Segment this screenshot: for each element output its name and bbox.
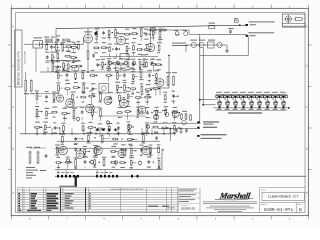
wire left col down (25, 92, 27, 134)
relay cell 4 resistor Rb4 (245, 95, 247, 97)
wire pad drop a (57, 170, 59, 175)
clean stage capacitor 20 (148, 160, 150, 162)
capacitor C32 (186, 129, 188, 131)
voltage regulator REG1 (208, 42, 215, 48)
input network resistor 3 (55, 44, 57, 45)
buffer stage resistor 13 (83, 84, 85, 85)
relay cell 1 resistor Ra1 (216, 95, 218, 97)
relay cell 3 label (232, 92, 238, 93)
relay cell 3 resistor Ra3 (232, 95, 234, 97)
relay cell 2 wire (227, 95, 229, 101)
row2 wire a (64, 106, 100, 108)
drawing info box (178, 188, 200, 213)
crunch stage resistor 34 (82, 125, 84, 126)
resistor R31 (181, 113, 183, 114)
wire pad drop c (96, 170, 98, 175)
relay cell 3 emitter wire (235, 105, 237, 108)
transistor TR20 FX (182, 120, 186, 124)
triode V5b (104, 97, 112, 105)
relay cell 4 resistor Ra4 (240, 95, 242, 97)
V1b stage resistor 28 (145, 61, 147, 62)
clean stage capacitor 2 (75, 148, 77, 150)
V1b stage capacitor 8 (145, 32, 147, 34)
crunch stage resistor 23 (116, 112, 117, 114)
clean stage capacitor 14 (84, 160, 86, 162)
wire tone row (100, 56, 148, 58)
node jog (168, 55, 170, 57)
relay cell 6 resistor Ra6 (256, 95, 258, 97)
clean stage resistor 5 (110, 150, 111, 152)
arrow rail2 (246, 35, 249, 37)
node array in1 (199, 99, 201, 101)
bl text (26, 167, 35, 168)
relay cell 4 diode Da4 (242, 95, 244, 98)
input network resistor 15 (63, 62, 65, 63)
wire pad drop d (104, 170, 106, 175)
relay cell 3 diode Da3 (234, 95, 236, 98)
clean stage resistor 1 (56, 146, 58, 147)
V1b stage resistor 15 (126, 45, 128, 46)
relay cell 5 diode Da5 (250, 95, 252, 98)
relay cell 7 label (264, 92, 270, 93)
triode V9a (142, 146, 151, 155)
node relay 9 (283, 107, 285, 109)
revision table entries (18, 193, 91, 211)
labels FX parts (153, 110, 159, 111)
buffer stage resistor 7 (116, 72, 118, 73)
node relay 6 (259, 107, 261, 109)
row2 bus drops (36, 128, 38, 134)
V1b stage capacitor 14 (115, 47, 117, 49)
relay cell 4 label (240, 92, 246, 93)
IC U1 box (99, 84, 109, 94)
supply rail2 wire (196, 33, 247, 35)
input network resistor 5 (66, 46, 67, 48)
clean stage resistor 17 (110, 161, 111, 163)
wire rail2 left drop (199, 34, 201, 36)
V1b stage resistor 12 (101, 47, 102, 49)
svg-text:E: E (306, 26, 308, 29)
wire FX mid (158, 128, 200, 130)
triode V1a (84, 34, 93, 43)
buffer stage capacitor 8 (123, 73, 125, 75)
V1b stage resistor 23 (112, 62, 113, 64)
resistor R20 (167, 76, 169, 77)
potentiometer VR13 (146, 125, 149, 128)
crunch stage capacitor 20 (81, 110, 83, 112)
relay in wire lower (203, 104, 215, 106)
vertical DRG.No. label box (15, 30, 22, 87)
row3 upper parts resistor 3 (87, 135, 89, 136)
input network capacitor 14 (57, 65, 59, 67)
input network resistor 18 (75, 65, 76, 67)
wire rail2 feeder (147, 29, 189, 31)
wire V2a anode (150, 28, 152, 44)
drawing sheet inner frame (16, 13, 305, 213)
title block (260, 188, 305, 213)
top margin zone ticks and numbers (11, 5, 308, 9)
wire reg drop right (226, 45, 228, 49)
input network resistor 17 (71, 65, 72, 67)
input network capacitor 8 (46, 55, 48, 57)
bright cap mark (95, 32, 98, 35)
relay cell 9 wire (283, 95, 285, 101)
thick power feed (75, 176, 77, 188)
resistor R22 (25, 80, 27, 81)
diode D6 (184, 32, 188, 36)
capacitor C50 rail2 (230, 30, 232, 32)
crunch stage resistor 25 (137, 109, 139, 110)
buffer stage resistor 3 (75, 73, 77, 74)
label FX return (203, 127, 217, 128)
input network resistor 9 (51, 54, 53, 55)
transistor TR9 relay driver (281, 101, 286, 106)
potentiometer VR22 (114, 161, 117, 164)
row3 right vert (161, 148, 163, 169)
buffer stage resistor 4 (82, 72, 84, 73)
wire V1a cathode (87, 43, 89, 50)
svg-text:DRG.No. 6100-61-0?s: DRG.No. 6100-61-0?s (16, 51, 20, 85)
crunch stage resistor 24 (124, 111, 125, 113)
input network resistor 11 (64, 55, 65, 57)
row3 upper parts resistor 7 (142, 134, 144, 135)
connector J2 pads (96, 175, 98, 178)
crunch stage resistor 16 (46, 110, 48, 111)
buffer stage resistor 10 (57, 84, 59, 85)
mid ground bus (20, 133, 176, 135)
V1b stage resistor 6 (131, 33, 132, 35)
svg-text:C: C (12, 106, 14, 109)
connector pad J4 (137, 175, 139, 178)
labels R22 R23 (24, 93, 29, 94)
transistor TR21 FX (165, 113, 169, 117)
FET switch area resistor 6 (153, 88, 154, 90)
relay array bottom bus (214, 107, 289, 109)
crunch stage resistor 15 (36, 108, 38, 109)
wire HT drop left (55, 29, 57, 45)
buffer stage resistor 5 (89, 74, 90, 76)
V1b stage resistor 25 (127, 62, 129, 63)
svg-text:D: D (306, 65, 308, 68)
V1b stage resistor 1 (96, 30, 98, 31)
triode V7a (59, 146, 68, 155)
crunch stage resistor 39 (128, 124, 130, 125)
switch box S1 (120, 54, 129, 59)
transistor TR5 relay driver (249, 101, 254, 106)
potentiometer VR23 (138, 161, 141, 164)
input network resistor 16 (67, 63, 69, 64)
relay cell 4 emitter wire (243, 105, 245, 108)
potentiometer VR1 bass (108, 61, 111, 64)
crunch stage resistor 27 (155, 109, 157, 110)
potentiometer VR12 (128, 125, 131, 128)
crunch stage resistor 30 (34, 126, 35, 128)
FX arrow 3 (197, 135, 199, 137)
buffer stage resistor 6 (105, 74, 106, 76)
revision right cells (148, 206, 158, 207)
buffer stage resistor 15 (116, 84, 118, 85)
relay cell 7 emitter wire (267, 105, 269, 108)
buffer stage resistor 1 (57, 71, 59, 72)
labels regulators (190, 40, 197, 41)
crunch stage resistor 18 (61, 112, 62, 114)
wire gnd drop 64 (63, 67, 65, 73)
potentiometer VR2 middle (116, 61, 119, 64)
FET switch area capacitor 2 (148, 73, 150, 75)
ground bus row1 (40, 71, 152, 73)
V1b stage capacitor 26 (132, 62, 134, 64)
crunch stage resistor 43 (173, 125, 175, 126)
transistor TR2 relay driver (225, 101, 230, 106)
triode V4a (56, 95, 63, 102)
clean stage resistor 3 (84, 148, 86, 149)
relay cell 1 resistor Rb1 (221, 95, 223, 97)
crunch stage resistor 13 (164, 94, 166, 95)
resistor R23 (30, 80, 32, 81)
resistor R72 dropper (143, 58, 145, 59)
relay cell 8 emitter wire (275, 105, 277, 108)
crunch stage resistor 12 (144, 96, 145, 98)
clean stage resistor 15 (94, 159, 96, 160)
V1b stage capacitor 2 (103, 31, 105, 33)
resistor R8 cathode (87, 50, 89, 51)
labels R72 C56 (141, 54, 146, 55)
input jack SK1 (33, 41, 43, 49)
wire PSU jog v (168, 56, 170, 89)
FET switch area resistor 4 (141, 85, 143, 86)
input network resistor 4 (62, 43, 64, 44)
crunch stage resistor 41 (152, 126, 153, 128)
relay array top bus (216, 94, 288, 96)
node in A (46, 43, 48, 45)
fuse FS1 on HT bus (209, 25, 215, 28)
right margin zone ticks and letters (306, 26, 312, 195)
relay cell 1 emitter wire (219, 105, 221, 108)
label FX send line1 (203, 121, 219, 122)
node array in2 (202, 104, 204, 106)
row3 bottom bus (55, 169, 162, 171)
potentiometer VR21 (90, 160, 93, 163)
resistor R24 grid stop (45, 39, 46, 41)
capacitor C31 (176, 129, 178, 131)
capacitor C4 bypass (93, 54, 95, 56)
relay cell 3 wire (235, 95, 237, 101)
crunch stage resistor 28 (165, 108, 167, 109)
wire PSU to array v1 (199, 36, 201, 123)
wire FX drop (170, 129, 172, 142)
resistor R75 (29, 151, 31, 152)
buffer stage resistor 12 (73, 87, 74, 89)
row3 upper parts resistor 4 (101, 134, 103, 135)
svg-text:A: A (13, 192, 15, 195)
crunch stage resistor 17 (51, 111, 52, 113)
address lines (210, 205, 250, 208)
triode V4b (66, 99, 75, 108)
wire FX top (150, 122, 201, 124)
wire PSU jog bottom (150, 87, 169, 89)
wire reg drop left (185, 45, 187, 52)
relay cell 2 diode Da2 (226, 95, 228, 98)
V1b stage resistor 18 (144, 49, 145, 51)
V1b stage resistor 11 (93, 47, 94, 49)
label 6100/6101 PCB above table (59, 186, 77, 187)
V1b stage resistor 29 (150, 63, 151, 65)
crunch stage resistor 40 (146, 124, 148, 125)
svg-text:25/06/96: 25/06/96 (167, 206, 176, 209)
resistor R25 (62, 39, 63, 41)
crunch stage resistor 22 (99, 109, 101, 110)
label polyprop caps (172, 43, 186, 44)
labels pots (106, 68, 111, 69)
input network resistor 12 (70, 57, 71, 59)
transistor TR3 relay driver (233, 101, 238, 106)
clean stage capacitor 8 (141, 148, 143, 150)
label TO CTL +/-22V (248, 32, 274, 33)
wire input run (43, 43, 84, 45)
V1b stage resistor 27 (139, 61, 141, 62)
relay cell 2 resistor Rb2 (229, 95, 231, 97)
relay cell 9 label (280, 92, 286, 93)
svg-text:A: A (306, 192, 308, 195)
buffer stage resistor 9 (132, 74, 134, 75)
row2 dots (36, 133, 38, 135)
relay in wire upper (200, 99, 216, 101)
crunch stage resistor 4 (72, 93, 74, 94)
wire rail2 down (247, 37, 249, 56)
svg-text:B: B (299, 207, 302, 212)
V1b stage resistor 17 (136, 48, 137, 50)
FET switch area resistor 3 (155, 73, 157, 74)
capacitor C55 (226, 49, 228, 51)
V1b stage resistor 22 (108, 60, 110, 61)
triode V6b (138, 106, 146, 114)
crunch stage resistor 35 (87, 126, 88, 128)
capacitor C56 (151, 61, 153, 63)
transistor TR10 (191, 42, 196, 47)
clean stage resistor 21 (158, 160, 160, 161)
relay cell 5 label (248, 92, 254, 93)
label TO CONSORT line1 (201, 134, 227, 135)
relay cell 9 resistor Ra9 (280, 95, 282, 97)
crunch stage resistor 21 (91, 108, 93, 109)
transistor TR8 relay driver (273, 101, 278, 106)
label INPUT (34, 37, 43, 38)
node relay 8 (275, 107, 277, 109)
labels R70 R71 (149, 26, 155, 27)
crunch stage capacitor 32 (54, 126, 56, 128)
triode V8a (94, 146, 103, 155)
FX arrow 1 (197, 121, 199, 123)
relay cell 9 diode Da9 (282, 95, 284, 98)
clean stage resistor 11 (55, 162, 56, 164)
connector pad J3 (131, 175, 133, 178)
clean stage resistor 9 (150, 147, 152, 148)
svg-text:E: E (13, 26, 15, 29)
row3 upper parts resistor 6 (127, 138, 128, 140)
third-angle projection symbol box (282, 14, 305, 27)
svg-text:DRG.No.: DRG.No. (261, 203, 268, 206)
wire loop horizontal (200, 55, 248, 57)
label 6100-54 line2 (201, 138, 222, 139)
node in C (74, 43, 76, 45)
connector labels (57, 172, 60, 173)
node relay 3 (235, 107, 237, 109)
clean stage resistor 13 (75, 159, 77, 160)
wire V1a anode (87, 28, 89, 34)
node g1 (55, 71, 57, 73)
transistor TR12 (217, 42, 222, 47)
V1b stage resistor 4 (114, 29, 116, 30)
svg-text:6100/6101: 6100/6101 (181, 207, 196, 211)
wire gnd drop 56 (55, 67, 57, 73)
row2 dark pads (97, 129, 99, 131)
potentiometer VR20 (66, 159, 69, 162)
wire gnd drop 48 (47, 67, 49, 73)
triode V5a (86, 104, 95, 113)
triode V3a FX (153, 114, 158, 119)
input network resistor 6 (71, 46, 72, 48)
buffer stage capacitor 2 (66, 73, 68, 75)
node relay 2 (227, 107, 229, 109)
row3 upper parts capacitor 8 (156, 136, 158, 138)
V1b stage capacitor 20 (97, 63, 99, 65)
input network resistor 13 (52, 63, 54, 64)
row3 top wire (57, 140, 160, 142)
transistor TR4 relay driver (241, 101, 246, 106)
node HT junction (239, 24, 241, 26)
V1b stage resistor 3 (108, 30, 110, 31)
triode V2a (146, 43, 154, 51)
relay array lower rail (216, 109, 288, 111)
svg-text:B: B (306, 148, 308, 151)
potentiometer VR10 (76, 117, 79, 120)
resistor R70 (149, 29, 150, 31)
crunch stage resistor 36 (97, 128, 98, 130)
crunch stage resistor 37 (108, 125, 110, 126)
FET switch area resistor 1 (140, 71, 142, 72)
relay cell 5 wire (251, 95, 253, 101)
relay cell 5 resistor Rb5 (253, 95, 255, 97)
FET switch area resistor 5 (145, 89, 146, 91)
relay cell 7 wire (267, 95, 269, 101)
relay cell 6 wire (259, 95, 261, 101)
clean stage resistor 7 (130, 147, 132, 148)
buffer stage resistor 17 (130, 88, 131, 90)
relay cell 2 label (224, 92, 230, 93)
resistor R21 (173, 76, 175, 77)
svg-text:HOLD DOWN: HOLD DOWN (23, 51, 26, 64)
logo swash (215, 199, 253, 200)
potentiometer VR11 (106, 121, 109, 124)
resistor R71 (159, 29, 160, 31)
crunch stage resistor 7 (99, 93, 101, 94)
capacitor C8 input (57, 38, 59, 40)
crunch stage capacitor 2 (46, 95, 48, 97)
V1b stage resistor 7 (140, 29, 142, 30)
label C50 (228, 28, 234, 29)
row3 upper parts capacitor 2 (75, 137, 77, 139)
input network capacitor 2 (50, 45, 52, 47)
wire V1a k gnd (87, 60, 89, 72)
label +15V/0/-15V rail (249, 21, 275, 22)
diode D10 on HT bus (234, 20, 238, 22)
node relay 7 (267, 107, 269, 109)
label RELAY DRIVERS (228, 112, 262, 113)
relay cell 8 wire (275, 95, 277, 101)
relay cell 6 resistor Rb6 (261, 95, 263, 97)
clean stage resistor 19 (130, 160, 132, 161)
V1b stage resistor 24 (118, 63, 119, 65)
